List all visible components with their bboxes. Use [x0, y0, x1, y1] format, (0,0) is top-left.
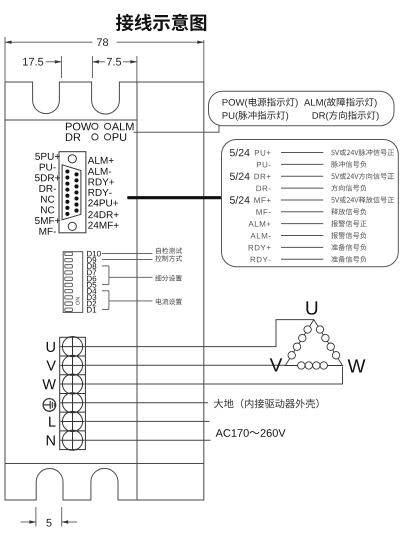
dim arrow 17.5: [55, 60, 62, 63]
wire W to motor: [85, 367, 342, 385]
LED label DR: [66, 133, 80, 141]
DB15 D-shell insert: [62, 165, 81, 220]
dim extension line left: [4, 37, 6, 82]
motor label W: [348, 359, 366, 372]
driver front panel right edge: [136, 82, 138, 500]
signal box name MF+: [254, 197, 270, 203]
signal box dash row 1: [281, 152, 323, 154]
wire earth: [85, 402, 208, 404]
wire V to motor: [85, 364, 285, 366]
signal box name DR-: [256, 186, 270, 192]
dim ext line 5 right: [61, 507, 63, 527]
driver front panel top line: [5, 119, 137, 121]
signal box name ALM-: [250, 233, 270, 239]
wire bracket1 to 细分设置: [109, 276, 153, 278]
wire D5 stub: [102, 284, 109, 286]
DIP ON label: [76, 297, 80, 305]
dim arrow 5 left: [29, 520, 36, 523]
label 控制方式: [155, 255, 182, 261]
legend cjk 方向指示灯: [329, 111, 376, 120]
legend cjk 故障指示灯: [327, 98, 374, 107]
LED label PU: [113, 133, 127, 141]
dim line 78 right segment: [117, 41, 204, 43]
DIP switch body: [63, 252, 82, 313]
wire D4 stub: [102, 290, 109, 292]
dim line 5 left: [21, 521, 36, 523]
DB15 screw hole bottom: [68, 222, 76, 230]
label 260V: [261, 429, 286, 437]
signal box cjk 5V或24V释放信号正: [331, 196, 394, 203]
wire LED panel to legend box: [134, 126, 220, 133]
dim tick 7.5 left: [91, 56, 93, 78]
bracket D4-D1: [108, 291, 110, 310]
motor label V: [270, 358, 283, 371]
dim label 17.5: [23, 58, 43, 66]
dim arrow 78 right: [197, 41, 204, 44]
signal box cjk 准备信号负: [331, 256, 366, 263]
bracket D8-D5: [108, 266, 110, 285]
dim extension line right: [203, 40, 205, 82]
signal box dash row 2: [281, 163, 323, 165]
dim line 7.5 right: [123, 61, 137, 63]
signal box dash row 10: [281, 258, 323, 260]
signal box name PU+: [255, 150, 271, 156]
terminal screws: [61, 337, 85, 451]
DB15 pins right column: [74, 172, 78, 212]
legend cjk 脉冲指示灯: [238, 111, 285, 120]
driver bottom flange line: [5, 463, 204, 465]
signal box name DR+: [254, 174, 270, 180]
signal box name RDY+: [249, 245, 271, 251]
dim line 5 right: [62, 521, 77, 523]
dim arrow 5 right: [62, 520, 68, 523]
signal box cjk 脉冲信号负: [331, 161, 366, 168]
signal box cjk 报警信号负: [331, 232, 366, 239]
signal box cjk 报警信号正: [331, 220, 366, 227]
label 细分设置: [155, 275, 182, 281]
dim label 5: [46, 519, 51, 527]
LED PU: [105, 134, 111, 140]
LED label POW: [66, 123, 91, 131]
DB15 screw hole top: [68, 155, 76, 163]
driver body outline: [5, 82, 204, 500]
DB15 pins left column: [65, 169, 69, 215]
legend cjk 电源指示灯: [249, 98, 295, 107]
signal box cjk 准备信号负: [331, 244, 366, 251]
terminal labels U V W L N: [42, 342, 56, 446]
LED label ALM: [112, 123, 134, 131]
wire D8 stub: [102, 265, 109, 267]
legend text close paren 3: [286, 112, 289, 121]
signal box name RDY-: [251, 257, 271, 263]
signal box dash row 8: [281, 235, 323, 237]
label 电流设置: [156, 298, 182, 304]
motor delta triangle: [285, 320, 342, 366]
wire D9 to 控制方式: [102, 259, 153, 261]
terminal block center line: [72, 337, 74, 449]
dim line 7.5 left: [92, 61, 105, 63]
dim arrow 7.5 left: [92, 60, 99, 63]
dim label 78: [97, 38, 108, 46]
signal box name PU-: [257, 162, 271, 168]
legend text ALM: [304, 99, 327, 108]
label fullwidth tilde: [249, 431, 259, 434]
wire D10 to 自检测试: [102, 252, 153, 254]
signal box 5/24 label row 5: [230, 196, 250, 204]
signal box dash row 5: [281, 199, 323, 201]
DIP pin labels D10-D1: [87, 251, 101, 313]
signal box name MF-: [256, 209, 270, 215]
signal box outline: [222, 140, 399, 267]
signal box dash row 9: [281, 246, 323, 248]
signal box cjk 5V或24V方向信号正: [331, 173, 394, 180]
DB15 connector body: [59, 152, 86, 233]
LED DR: [92, 134, 98, 140]
dim ext line 5 left: [35, 507, 37, 527]
motor coil left side: [288, 326, 311, 359]
legend text close paren 1: [295, 99, 298, 108]
dim tick 17.5: [60, 56, 62, 78]
DB15 left pin labels: [35, 153, 60, 235]
LED ALM: [105, 123, 111, 129]
signal box cjk 5V或24V脉冲信号正: [331, 149, 394, 156]
dim arrow 7.5 right: [130, 60, 137, 63]
wire bracket2 to 电流设置: [109, 300, 153, 302]
label AC170: [216, 429, 249, 437]
terminal block outline: [60, 337, 86, 449]
signal box dash row 6: [281, 211, 323, 213]
motor label U: [306, 301, 317, 314]
dim line 17.5: [46, 61, 61, 63]
motor coil bottom side: [298, 362, 328, 369]
dim arrow 78 left: [5, 41, 12, 44]
motor coil right side: [316, 326, 340, 359]
DIP switch actuators: [65, 252, 73, 311]
earth terminal symbol: [43, 399, 56, 412]
legend text DR: [313, 112, 329, 121]
wire U to motor: [85, 320, 313, 347]
dim label 7.5: [107, 58, 121, 66]
wire L: [85, 420, 209, 422]
legend text close paren 4: [376, 112, 379, 121]
signal box 5/24 label row 1: [230, 149, 250, 157]
title 接线示意图: [116, 14, 206, 32]
signal box 5/24 label row 3: [230, 172, 250, 180]
LED POW: [92, 123, 98, 129]
signal box name ALM+: [248, 221, 270, 227]
signal box dash row 4: [281, 187, 323, 189]
legend box outline: [209, 91, 395, 125]
legend text PU: [223, 112, 239, 121]
signal box dash row 7: [281, 223, 323, 225]
dim line 78 left segment: [5, 41, 93, 43]
label 大地（内接驱动器外壳）: [214, 399, 319, 409]
wire D1 stub: [102, 308, 109, 310]
signal box cjk 方向信号负: [331, 185, 366, 192]
signal box dash row 3: [281, 175, 323, 177]
terminal block dividers: [60, 356, 86, 431]
signal box cjk 释放信号负: [331, 208, 366, 215]
wire N: [85, 439, 210, 441]
legend text close paren 2: [374, 99, 377, 108]
DB15 right pin labels: [88, 157, 119, 229]
label 自检测试: [156, 247, 182, 253]
dim tick 7.5 right: [136, 56, 138, 84]
legend text POW: [223, 99, 248, 108]
signal cable DB15 to signal box: [127, 196, 221, 199]
